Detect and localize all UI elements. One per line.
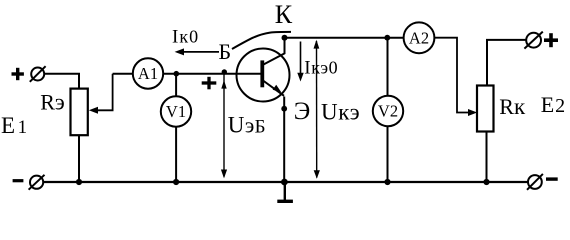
wire: V1 bottom lead bbox=[175, 127, 177, 183]
label Iкэ0 with down arrow bbox=[297, 42, 338, 82]
voltmeter V1 bbox=[161, 96, 191, 126]
measurement arrow Uэб (vertical double arrow) bbox=[221, 73, 227, 178]
svg-text:UэБ: UэБ bbox=[228, 113, 266, 138]
wire: A1 to transistor base bbox=[163, 73, 261, 75]
voltmeter V2 bbox=[373, 96, 403, 126]
node: V2 junction on top wire bbox=[384, 35, 390, 41]
Rк wiper arrowhead bbox=[468, 109, 477, 116]
terminal E1 plus (top-left) bbox=[12, 66, 46, 82]
measurement arrow Uкэ (vertical double arrow) bbox=[314, 40, 320, 179]
svg-text:Uкэ: Uкэ bbox=[321, 100, 360, 125]
svg-text:V1: V1 bbox=[166, 102, 186, 121]
wire: bottom rail bbox=[43, 181, 528, 183]
ammeter A1 bbox=[133, 58, 163, 88]
terminal E2 minus (bottom-right) bbox=[527, 174, 558, 190]
wire: E1+ terminal to Rэ top bbox=[44, 74, 79, 89]
node: rail junction Rк bbox=[483, 179, 489, 185]
node: rail junction Rэ bbox=[76, 179, 82, 185]
svg-text:A1: A1 bbox=[138, 64, 158, 83]
resistor Rк bbox=[477, 86, 494, 132]
svg-text:Rк: Rк bbox=[499, 94, 526, 119]
svg-text:Iк0: Iк0 bbox=[172, 27, 199, 48]
wire: emitter vertical lead to rail bbox=[283, 97, 285, 183]
node: rail junction emitter bbox=[281, 179, 288, 186]
node: rail junction V2 bbox=[384, 179, 390, 185]
transistor emitter diagonal with arrow bbox=[263, 81, 284, 96]
wire: V2 top lead bbox=[387, 38, 389, 96]
resistor Rэ bbox=[71, 89, 88, 136]
Rэ wiper arrowhead bbox=[89, 107, 98, 114]
wire: Rэ bottom to bottom rail bbox=[78, 135, 80, 182]
node: rail junction V1 bbox=[173, 179, 179, 185]
svg-text:E1: E1 bbox=[1, 113, 27, 138]
wire: wiper corner to ammeter A1 bbox=[113, 73, 133, 75]
svg-text:E2: E2 bbox=[541, 92, 565, 117]
svg-text:V2: V2 bbox=[378, 102, 398, 121]
node: emitter terminal dot bbox=[281, 106, 287, 112]
wire: Rк bottom to rail bbox=[486, 132, 488, 183]
node: junction A1/V1 bbox=[174, 71, 180, 77]
wire: top wire collector node to A2 bbox=[285, 37, 404, 39]
transistor collector diagonal bbox=[263, 53, 285, 65]
svg-text:A2: A2 bbox=[409, 28, 429, 47]
wire: curved lead from base label to collector node bbox=[232, 32, 291, 49]
label plus near base bbox=[202, 77, 217, 90]
wire: V1 top lead bbox=[175, 74, 177, 97]
wire: A2 to Rк wiper bbox=[435, 38, 471, 113]
ground symbol bbox=[277, 182, 293, 203]
transistor base bar bbox=[260, 60, 264, 87]
svg-text:Iкэ0: Iкэ0 bbox=[304, 58, 338, 79]
node: collector junction on top wire bbox=[282, 35, 288, 41]
wire: E2+ terminal to Rк top bbox=[487, 40, 526, 86]
svg-text:К: К bbox=[275, 0, 293, 29]
label Iк0 with left arrow bbox=[172, 27, 219, 56]
svg-text:Б: Б bbox=[219, 39, 232, 64]
svg-text:Э: Э bbox=[294, 98, 311, 125]
wire: collector vertical lead bbox=[284, 38, 286, 54]
node: Uэб tap dot on base wire bbox=[222, 69, 227, 74]
svg-text:Rэ: Rэ bbox=[40, 90, 65, 115]
wire: Rэ wiper feed (down from base wire) bbox=[94, 74, 113, 111]
terminal E1 minus (bottom-left) bbox=[13, 175, 45, 190]
ammeter A2 bbox=[404, 22, 435, 53]
wire: V2 bottom lead bbox=[387, 126, 389, 182]
transistor VT circle bbox=[237, 49, 290, 102]
terminal E2 plus (top-right) bbox=[524, 32, 558, 49]
